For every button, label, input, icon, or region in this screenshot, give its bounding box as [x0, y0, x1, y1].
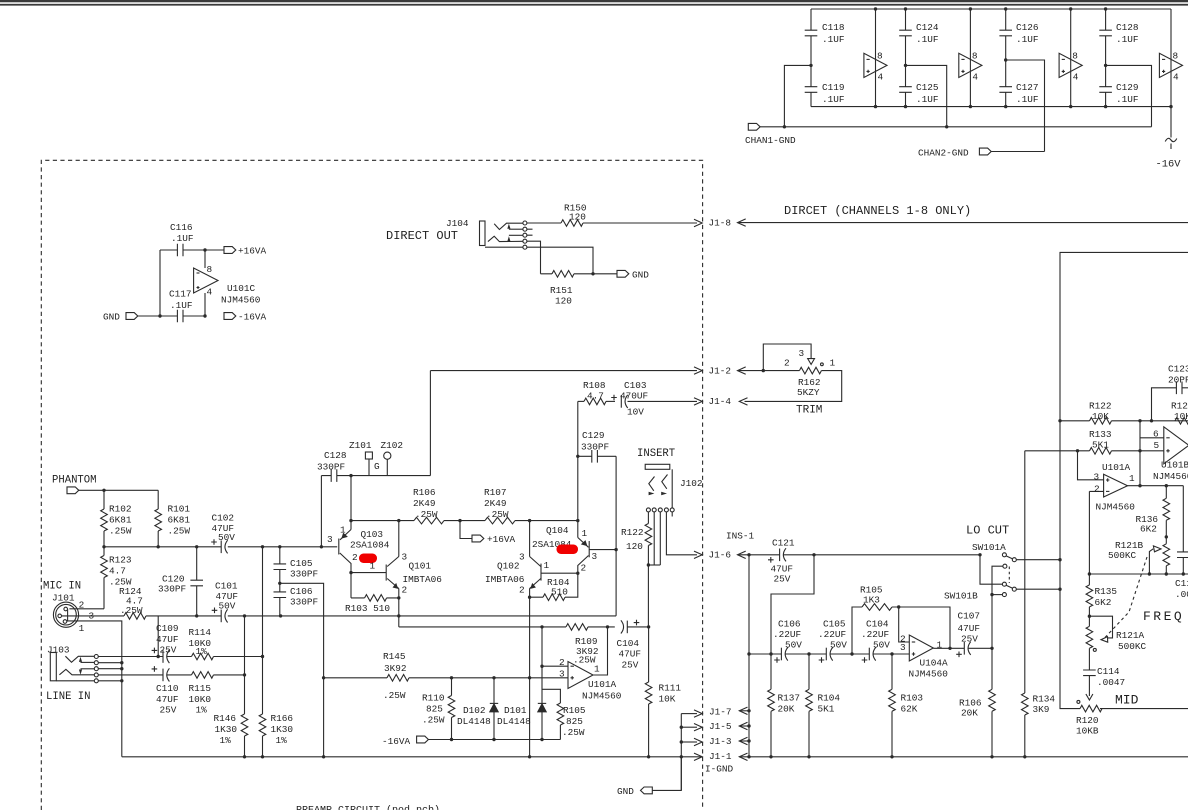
resistor R114 10K0 1% [189, 627, 265, 660]
svg-text:2K49: 2K49 [413, 498, 436, 509]
test point Z102 [381, 440, 404, 476]
svg-text:510: 510 [551, 587, 568, 598]
capacitor C104 .22UF 50V [861, 619, 909, 663]
svg-text:IMBTA06: IMBTA06 [485, 574, 525, 585]
svg-text:NJM4560: NJM4560 [1153, 471, 1188, 482]
svg-text:3: 3 [327, 534, 333, 545]
svg-text:.0047: .0047 [1097, 677, 1125, 688]
svg-text:DL4148: DL4148 [497, 716, 531, 727]
wire: J1-7/J1-5/J1-3 inside drops [680, 710, 703, 790]
resistor R115 10K0 1% [189, 672, 247, 716]
svg-text:NJM4560: NJM4560 [221, 295, 261, 306]
svg-text:3: 3 [900, 642, 906, 653]
capacitor C128 (bypass) [1099, 7, 1139, 65]
capacitor C117 [169, 289, 193, 323]
capacitor C106 330PF [274, 586, 319, 616]
diode D101 DL4148 [497, 627, 546, 740]
transistor Q104 2SA1084 (PNP, mirrored) [532, 455, 598, 574]
svg-text:R133: R133 [1089, 429, 1112, 440]
svg-text:R110: R110 [422, 693, 445, 704]
resistor R146 1K30 1% [214, 616, 248, 759]
svg-text:20K: 20K [961, 708, 978, 719]
svg-text:J1-5: J1-5 [709, 721, 732, 732]
wire: U101A output up to feedback row [593, 627, 608, 675]
capacitor C114 .0047 [1083, 666, 1125, 700]
svg-text:GND: GND [103, 312, 120, 323]
resistor R133 5K1 [1025, 429, 1164, 454]
wire: J103 ring stubs to ground leg [98, 661, 123, 683]
capacitor C105 .22UF 50V [818, 619, 869, 663]
svg-text:R115: R115 [189, 683, 212, 694]
svg-text:6: 6 [1153, 429, 1159, 440]
wire: GND row through C117 [138, 314, 207, 317]
wire: J104 sleeve drop [527, 247, 595, 275]
svg-text:I-GND: I-GND [705, 764, 734, 775]
svg-text:3: 3 [1094, 472, 1100, 483]
svg-text:2: 2 [1094, 484, 1100, 495]
resistor R106 20K [959, 689, 995, 758]
svg-text:.1UF: .1UF [1016, 94, 1039, 105]
svg-text:R104: R104 [818, 693, 841, 704]
svg-text:C101: C101 [215, 581, 238, 592]
resistor R135 6K2 [1086, 574, 1117, 618]
power net -16V with break squiggle [1156, 107, 1182, 171]
wire: inverting row across to C129 leg [228, 614, 616, 617]
resistor R102 6K81 .25W [101, 490, 132, 547]
svg-text:3: 3 [799, 348, 805, 359]
svg-text:1: 1 [79, 623, 85, 634]
svg-text:4: 4 [878, 72, 884, 83]
node label J1-3 [709, 736, 751, 747]
capacitor C118 [805, 9, 845, 65]
op-amp supply buffer 2 (pins 8/4) [959, 7, 982, 108]
svg-text:DIRECT OUT: DIRECT OUT [386, 229, 458, 243]
diode D102 DL4148 [457, 678, 498, 740]
resistor R101 6K81 .25W [155, 490, 190, 547]
svg-text:R114: R114 [189, 627, 212, 638]
capacitor C121 47UF 25V [768, 538, 980, 585]
capacitor C106 .22UF 50V [773, 619, 826, 663]
svg-text:3: 3 [559, 669, 565, 680]
svg-text:R122: R122 [621, 527, 644, 538]
svg-text:J1-3: J1-3 [709, 736, 732, 747]
op-amp supply buffer 1 (pins 8/4) [864, 7, 887, 108]
resistor R151 120 [541, 271, 618, 307]
op-amp supply buffer 4 (pins 8/4) [1159, 9, 1182, 108]
redaction mark (red) near Q104 [557, 545, 579, 555]
svg-text:C126: C126 [1016, 22, 1039, 33]
svg-text:.22UF: .22UF [818, 629, 846, 640]
capacitor C120 330PF [158, 547, 203, 618]
svg-text:.1UF: .1UF [170, 300, 193, 311]
svg-text:2SA1084: 2SA1084 [350, 540, 390, 551]
svg-text:U101B: U101B [1161, 460, 1188, 471]
svg-text:.1UF: .1UF [822, 94, 845, 105]
svg-text:DIRCET (CHANNELS 1-8 ONLY): DIRCET (CHANNELS 1-8 ONLY) [784, 204, 971, 218]
svg-text:Q101: Q101 [409, 561, 432, 572]
svg-text:.1UF: .1UF [171, 233, 194, 244]
svg-text:J1-2: J1-2 [709, 365, 732, 376]
wire: U101A output row [1128, 484, 1184, 487]
wire: U104A output row [933, 647, 964, 650]
svg-text:C129: C129 [1116, 82, 1139, 93]
svg-text:C105: C105 [290, 558, 313, 569]
svg-text:1K30: 1K30 [271, 724, 294, 735]
svg-text:C110: C110 [156, 683, 179, 694]
ground tag GND (U101C block) [103, 312, 138, 323]
resistor R136 6K2 [1136, 486, 1170, 544]
resistor R145 3K92 .25W [322, 651, 568, 701]
off-page tag CHAN1-GND [745, 123, 796, 146]
svg-text:DL4148: DL4148 [457, 716, 491, 727]
svg-text:6K2: 6K2 [1140, 524, 1157, 535]
svg-text:Q103: Q103 [361, 529, 384, 540]
wire: J1-6 ground leg [748, 555, 750, 757]
wire: J1-4 row inside [578, 398, 702, 457]
svg-text:8: 8 [1173, 51, 1179, 62]
svg-text:R101: R101 [168, 504, 191, 515]
node: C126/C127 midpoint to CHAN2-GND [1004, 58, 1045, 151]
svg-text:C129: C129 [582, 430, 605, 441]
capacitor C102 47UF 50V [211, 513, 235, 554]
resistor R104 5K1 [806, 654, 841, 759]
test point Z101 [349, 440, 380, 476]
svg-text:.1UF: .1UF [1116, 34, 1139, 45]
svg-text:3K92: 3K92 [384, 663, 407, 674]
node: C128/C129 midpoint riser [1104, 64, 1152, 127]
svg-text:C123: C123 [1168, 364, 1188, 375]
wire: -16VA row [428, 738, 560, 741]
svg-text:825: 825 [566, 716, 583, 727]
svg-text:120: 120 [626, 541, 643, 552]
wire: CHAN2-GND net [991, 151, 1045, 153]
svg-text:R111: R111 [659, 683, 682, 694]
resistor R122 10K [1058, 401, 1188, 425]
svg-text:R137: R137 [778, 693, 801, 704]
svg-text:6K81: 6K81 [168, 515, 191, 526]
svg-text:-16VA: -16VA [238, 312, 267, 323]
svg-text:C106: C106 [290, 586, 313, 597]
svg-text:R102: R102 [109, 504, 132, 515]
svg-text:C104: C104 [617, 638, 640, 649]
svg-text:.25W: .25W [422, 715, 445, 726]
transistor Q101 IMBTA06 (NPN) [370, 519, 443, 596]
wire: J1-1 ground row (right) [739, 755, 1188, 758]
svg-text:25V: 25V [961, 634, 978, 645]
svg-text:C115: C115 [1175, 578, 1188, 589]
svg-text:J1-7: J1-7 [709, 706, 732, 717]
svg-text:8: 8 [207, 264, 213, 275]
wire: U104A input row [747, 652, 781, 655]
svg-text:C104: C104 [866, 619, 889, 630]
wire: C128 rail to Q103 emitter leg [349, 474, 352, 530]
svg-text:10K0: 10K0 [189, 694, 212, 705]
wire: +16VA node [203, 248, 224, 251]
capacitor C109 47UF 25V [152, 623, 192, 663]
capacitor C104 47UF 25V (feedback) [617, 620, 651, 671]
svg-text:2: 2 [784, 358, 790, 369]
wire: +input bus [102, 545, 337, 548]
svg-text:1: 1 [340, 525, 346, 536]
svg-text:Q102: Q102 [497, 561, 520, 572]
svg-text:6K81: 6K81 [109, 515, 132, 526]
wire: C121 tap down to input row [769, 555, 814, 690]
svg-text:.22UF: .22UF [861, 629, 889, 640]
redaction mark (red) near Q103 [359, 554, 377, 564]
svg-text:U101A: U101A [1102, 462, 1131, 473]
svg-text:J104: J104 [446, 218, 469, 229]
svg-text:2: 2 [352, 552, 358, 563]
svg-text:+16VA: +16VA [487, 534, 516, 545]
switch SW101B [944, 555, 1062, 602]
svg-text:C128: C128 [324, 450, 347, 461]
wire: line ring row to C110 [98, 674, 163, 676]
resistor R124 4.7 .25W [119, 586, 146, 619]
svg-text:C116: C116 [170, 222, 193, 233]
resistor R122 120 (insert) [621, 512, 652, 627]
svg-text:.25W: .25W [573, 655, 596, 666]
svg-text:120: 120 [569, 212, 586, 223]
resistor R123 10K (clipped at edge) [1171, 401, 1188, 425]
svg-text:1: 1 [1129, 473, 1135, 484]
svg-text:47UF: 47UF [958, 623, 981, 634]
svg-text:4: 4 [1173, 72, 1179, 83]
switch SW101A [972, 542, 1062, 562]
wire: XLR pin2 to R123 [69, 608, 104, 610]
svg-text:.1UF: .1UF [1016, 34, 1039, 45]
wire: Q101 emitter down to feedback corner [397, 589, 400, 627]
svg-text:.25W: .25W [383, 690, 406, 701]
svg-text:4: 4 [1073, 72, 1079, 83]
svg-text:Q104: Q104 [546, 525, 569, 536]
svg-text:.1UF: .1UF [916, 94, 939, 105]
power tag +16VA [224, 246, 267, 257]
svg-text:1%: 1% [196, 705, 208, 716]
svg-text:C127: C127 [1016, 82, 1039, 93]
svg-text:R103: R103 [901, 693, 924, 704]
resistor R103 510 [345, 595, 399, 614]
svg-text:330PF: 330PF [581, 442, 609, 453]
svg-text:J102: J102 [680, 478, 703, 489]
svg-text:-16VA: -16VA [382, 736, 411, 747]
capacitor C116 [160, 222, 205, 256]
svg-text:SW101A: SW101A [972, 542, 1006, 553]
svg-text:R120: R120 [1076, 715, 1099, 726]
node label J1-5 [709, 721, 751, 732]
potentiometer R121B 500KC [1108, 540, 1170, 574]
svg-text:.1UF: .1UF [822, 34, 845, 45]
svg-text:5KZY: 5KZY [797, 387, 820, 398]
svg-text:10V: 10V [627, 407, 644, 418]
svg-text:C124: C124 [916, 22, 939, 33]
node: C124/C125 midpoint drop to CHAN1-GND [904, 64, 949, 129]
svg-text:25V: 25V [622, 660, 639, 671]
svg-text:C128: C128 [1116, 22, 1139, 33]
svg-text:25V: 25V [774, 574, 791, 585]
resistor R134 3K9 [1022, 451, 1056, 757]
mechanical gang link (dashed) [1105, 557, 1147, 638]
capacitor C124 [899, 7, 939, 65]
svg-text:1%: 1% [276, 735, 288, 746]
svg-text:R151: R151 [550, 285, 573, 296]
svg-text:1%: 1% [220, 735, 232, 746]
svg-text:1: 1 [594, 664, 600, 675]
svg-text:J1-6: J1-6 [709, 550, 732, 561]
svg-text:47UF: 47UF [619, 649, 642, 660]
svg-text:5: 5 [1154, 440, 1160, 451]
capacitor C101 47UF 50V [212, 581, 238, 623]
svg-text:4: 4 [972, 72, 978, 83]
svg-text:C107: C107 [958, 611, 981, 622]
capacitor C110 47UF 25V [152, 666, 192, 715]
wire: J1-2 row (trim wiper) [430, 367, 702, 374]
svg-text:J1-8: J1-8 [709, 217, 732, 228]
svg-text:SW101B: SW101B [944, 591, 978, 602]
connector J102 (insert jack) [645, 464, 702, 516]
connector J104 (direct out jack) [446, 218, 533, 249]
power tag +16VA (center) [458, 519, 515, 545]
resistor R150 120 [527, 203, 702, 227]
resistor R108 4.7 [583, 380, 606, 405]
svg-text:50V: 50V [830, 640, 847, 651]
svg-text:Z101: Z101 [349, 440, 372, 451]
wire: bottom rail of bypass-cap bank [811, 106, 1171, 108]
svg-text:20PF: 20PF [1168, 375, 1188, 386]
svg-text:1K30: 1K30 [215, 724, 238, 735]
svg-text:47UF: 47UF [156, 694, 179, 705]
svg-text:10K: 10K [1092, 411, 1109, 422]
svg-text:120: 120 [555, 296, 572, 307]
power tag -16VA (diode clamp) [382, 736, 428, 747]
connector J103 (line input jack) [47, 645, 98, 683]
svg-text:C125: C125 [916, 82, 939, 93]
svg-text:C106: C106 [778, 619, 801, 630]
wire: Q102 base lead to Q104 collector node [541, 572, 580, 575]
svg-text:R105: R105 [563, 705, 586, 716]
sheet top border line (outer) [0, 0, 1188, 2]
wire: J1-2 branch down to C128 rail [429, 371, 431, 476]
node label J1-7 [709, 706, 751, 717]
svg-text:R103 510: R103 510 [345, 603, 390, 614]
svg-text:R134: R134 [1033, 694, 1056, 705]
wire: Q102 emitter drop [528, 589, 531, 757]
svg-text:1: 1 [370, 561, 376, 572]
svg-text:C109: C109 [156, 623, 179, 634]
svg-text:330PF: 330PF [158, 584, 186, 595]
svg-text:R106: R106 [413, 487, 436, 498]
wire: Q103 base lead junction to Q101 [349, 571, 386, 574]
svg-text:Z102: Z102 [381, 440, 404, 451]
svg-text:FREQ: FREQ [1143, 609, 1184, 624]
svg-text:R108: R108 [583, 380, 606, 391]
svg-text:62K: 62K [901, 704, 918, 715]
capacitor C125 [899, 65, 939, 108]
svg-text:.1UF: .1UF [1116, 94, 1139, 105]
capacitor C105 330PF [274, 547, 319, 592]
svg-text:R146: R146 [214, 713, 237, 724]
capacitor C119 [805, 65, 845, 106]
capacitor C129 (bypass) [1099, 65, 1138, 108]
svg-text:D101: D101 [504, 705, 527, 716]
svg-text:3K9: 3K9 [1033, 704, 1050, 715]
svg-text:.25W: .25W [109, 526, 132, 537]
svg-text:50V: 50V [873, 640, 890, 651]
svg-text:25V: 25V [160, 705, 177, 716]
wire: line tip row to C109 [98, 616, 163, 658]
svg-text:R135: R135 [1095, 586, 1118, 597]
wire: feedback row (R109/C104) [399, 625, 566, 628]
svg-text:LINE IN: LINE IN [46, 691, 91, 703]
resistor R166 1K30 1% [259, 547, 293, 759]
wire: Q104 base lead to C129 leg [589, 548, 618, 551]
svg-text:MIC IN: MIC IN [43, 581, 81, 593]
ground tag GND (direct out) [617, 270, 649, 281]
op-amp U101B NJM4560 [1153, 427, 1188, 482]
wire: EQ mid rail [1088, 572, 1188, 575]
svg-text:2: 2 [402, 585, 408, 596]
svg-text:U101A: U101A [588, 679, 617, 690]
svg-text:1K3: 1K3 [863, 595, 880, 606]
svg-text:25V: 25V [160, 645, 177, 656]
svg-text:U104A: U104A [920, 658, 949, 669]
svg-text:50V: 50V [785, 640, 802, 651]
resistor R109 3K92 .25W [566, 624, 615, 666]
wire: C116 left leg [159, 250, 161, 316]
op-amp U101C NJM4560 [194, 250, 261, 316]
svg-text:NJM4560: NJM4560 [582, 691, 622, 702]
svg-text:INSERT: INSERT [637, 448, 675, 460]
capacitor C103 470UF 10V [611, 380, 648, 418]
svg-text:2K49: 2K49 [484, 498, 507, 509]
power tag PHANTOM [67, 487, 79, 494]
svg-text:D102: D102 [463, 705, 486, 716]
svg-text:470UF: 470UF [620, 391, 648, 402]
wire: R122/R133 link and U101B pin6 [1140, 421, 1164, 486]
svg-text:10KB: 10KB [1076, 726, 1099, 737]
svg-text:330PF: 330PF [290, 597, 318, 608]
potentiometer R120 10KB (MID) [1076, 700, 1188, 736]
svg-text:6K2: 6K2 [1095, 597, 1112, 608]
resistor R105 825 .25W [542, 689, 586, 739]
wire: EQ section boundary box [1060, 252, 1188, 708]
capacitor C107 47UF 25V [956, 611, 994, 658]
svg-text:PREAMP CIRCUIT (pod pcb): PREAMP CIRCUIT (pod pcb) [296, 805, 440, 810]
resistor R137 20K [768, 689, 800, 758]
resistor R110 825 .25W [422, 678, 455, 740]
svg-text:R107: R107 [484, 487, 507, 498]
svg-text:C105: C105 [823, 619, 846, 630]
svg-text:20K: 20K [778, 704, 795, 715]
svg-text:R122: R122 [1089, 401, 1112, 412]
capacitor C123 20PF [1152, 364, 1188, 421]
node: C118/C119 midpoint to CHAN1-GND [783, 64, 813, 129]
op-amp U101A NJM4560 (EQ) [1078, 451, 1136, 574]
transistor Q103 2SA1084 (PNP) [327, 525, 390, 598]
svg-text:5K1: 5K1 [1092, 440, 1109, 451]
svg-text:GND: GND [617, 786, 634, 797]
wire: left ground return row [122, 678, 702, 761]
potentiometer R121A 500KC [1086, 616, 1146, 670]
svg-text:.25W: .25W [168, 526, 191, 537]
power tag -16VA (U101C block) [224, 312, 267, 323]
svg-text:8: 8 [972, 51, 978, 62]
svg-text:10K: 10K [659, 694, 676, 705]
capacitor C127 [999, 60, 1038, 108]
svg-text:3: 3 [402, 552, 408, 563]
svg-text:500KC: 500KC [1118, 641, 1147, 652]
wire: insert ring contacts to R122 node [648, 512, 660, 565]
connector J101 (XLR mic input) [52, 593, 95, 635]
